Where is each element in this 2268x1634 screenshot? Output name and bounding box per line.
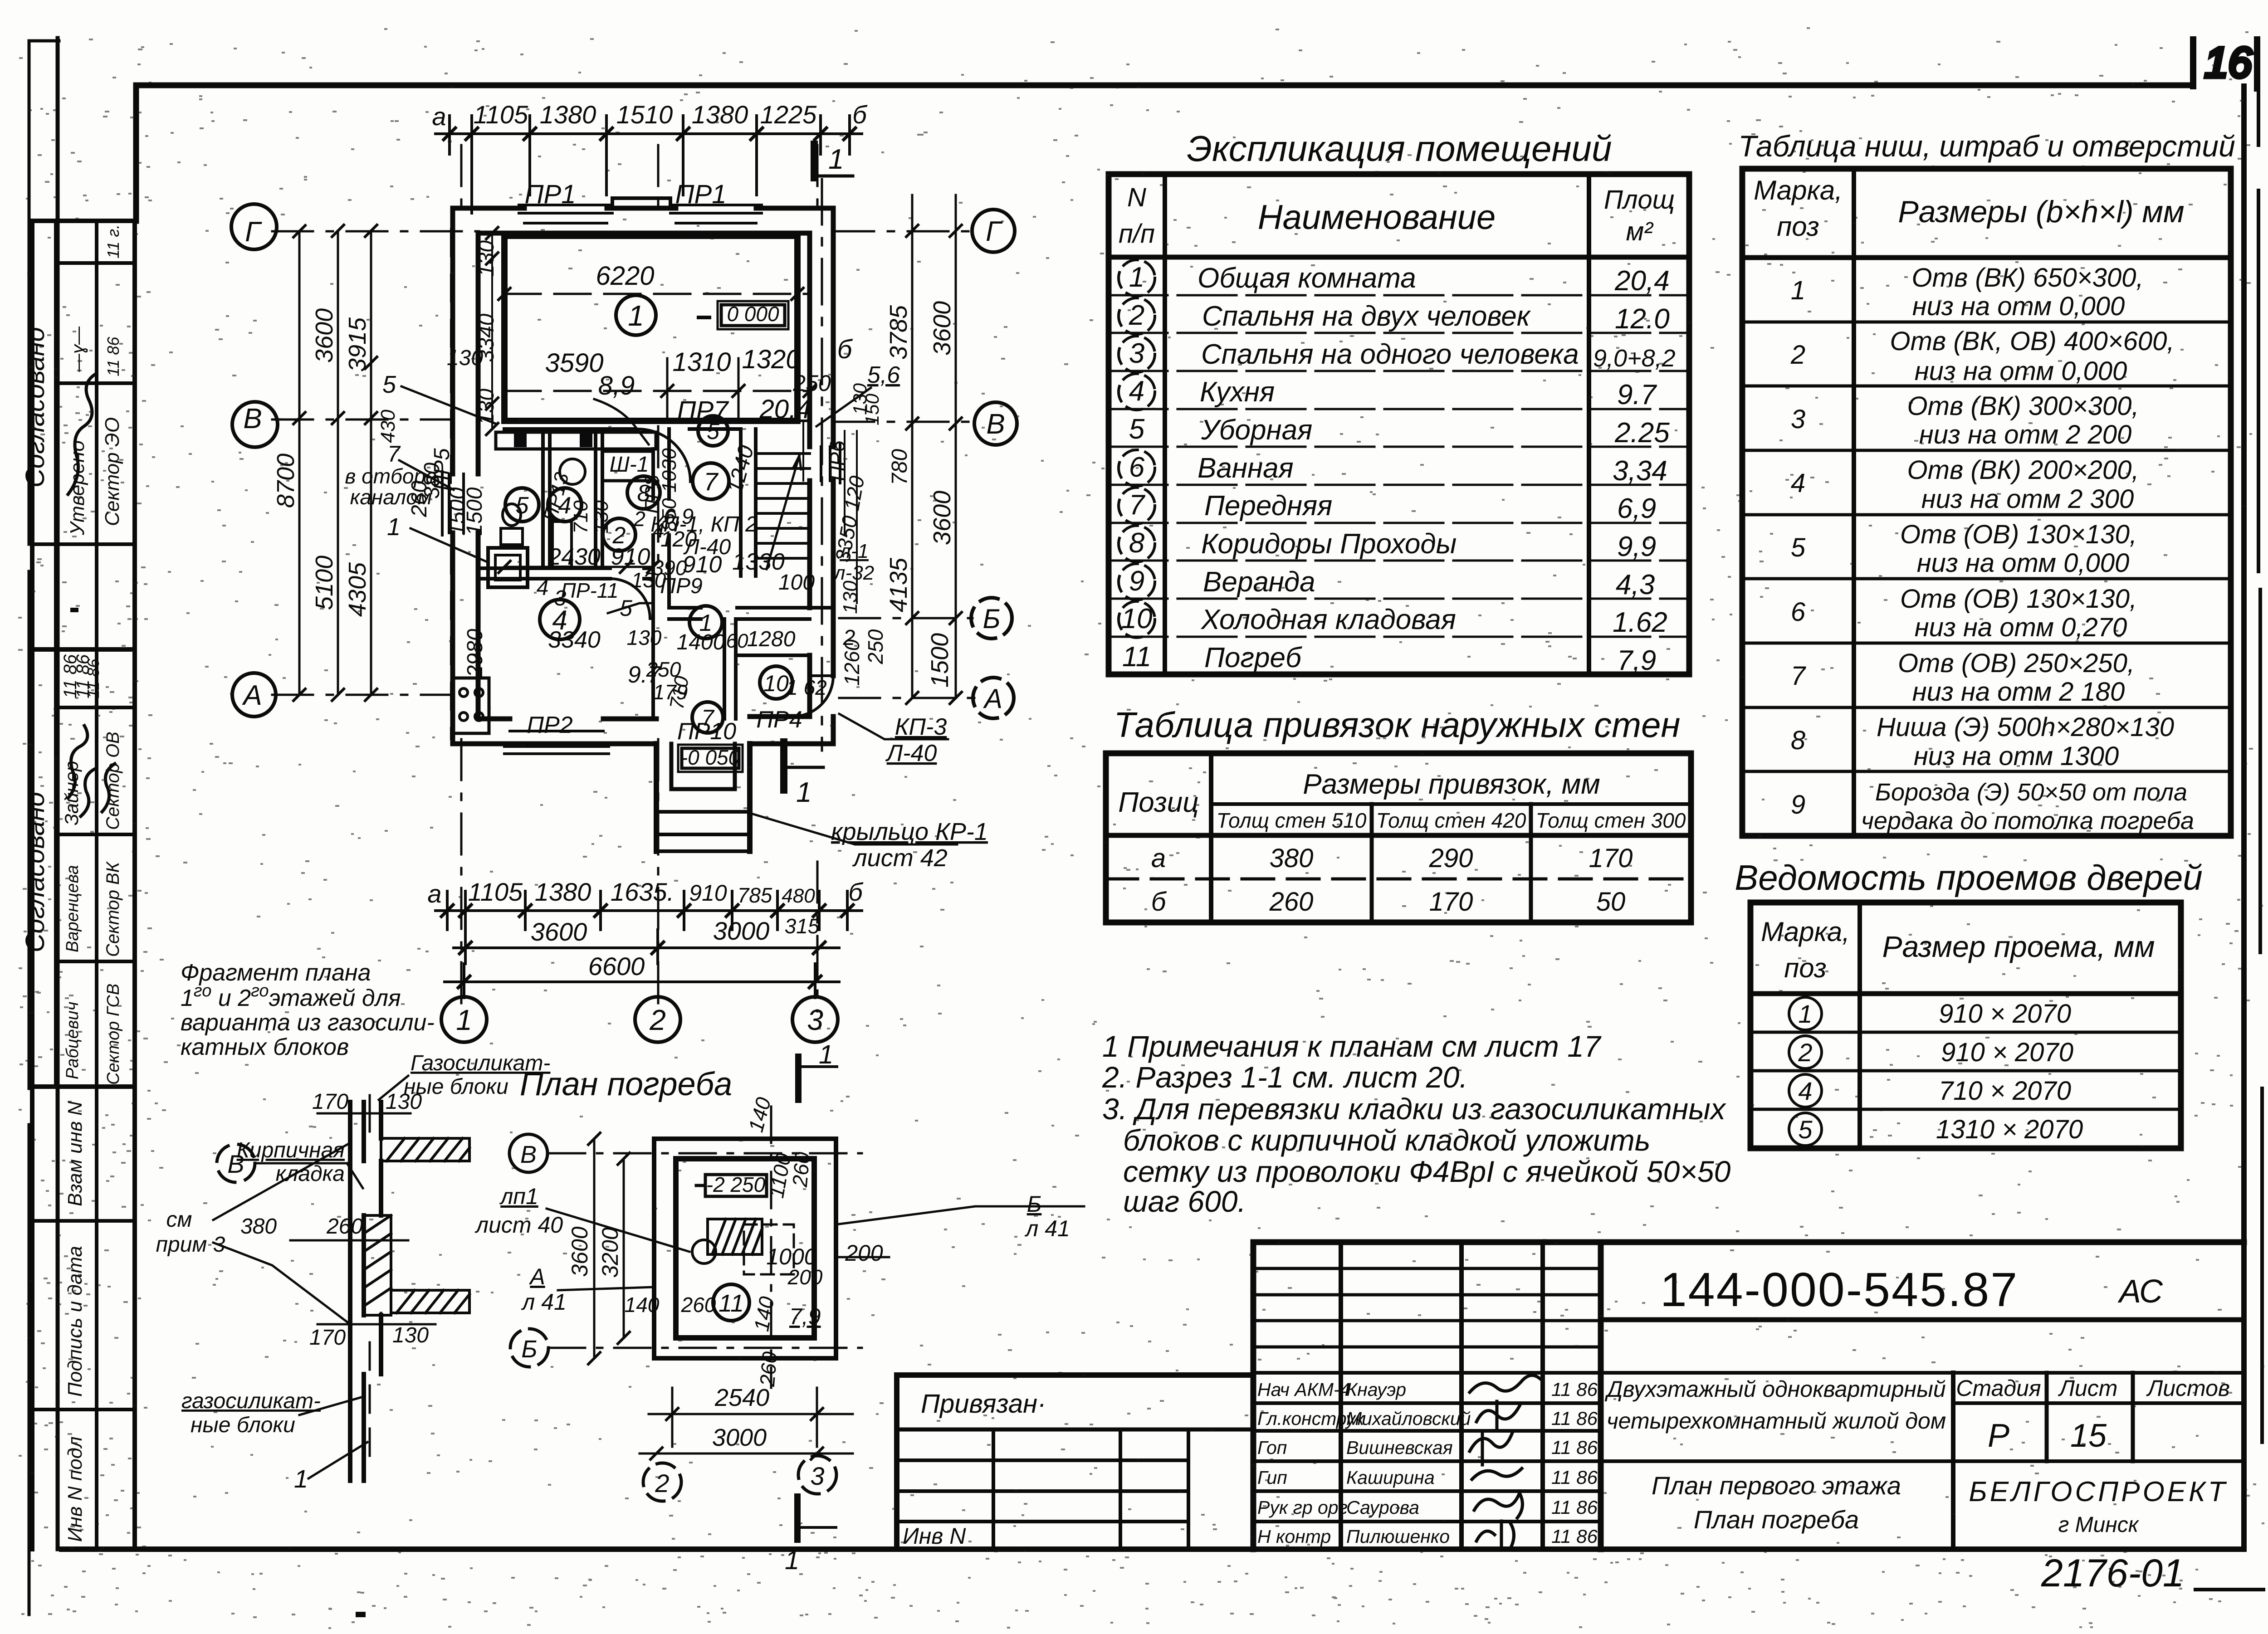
leader 5 mid (608, 603, 653, 613)
svg-text:шаг 600.: шаг 600. (1123, 1185, 1246, 1218)
svg-text:2: 2 (1790, 340, 1805, 370)
signature squiggles block2 (68, 726, 88, 798)
stray dot left (73, 608, 76, 612)
svg-text:низ на отм 2 300: низ на отм 2 300 (1921, 484, 2134, 514)
leader 7 left (399, 460, 454, 490)
svg-text:ПР4: ПР4 (756, 707, 802, 733)
svg-text:4: 4 (537, 576, 549, 600)
svg-text:л 41: л 41 (1024, 1216, 1070, 1241)
svg-text:9: 9 (1129, 566, 1144, 597)
svg-text:11 86: 11 86 (1551, 1526, 1598, 1547)
svg-text:1: 1 (456, 1004, 472, 1036)
svg-text:Двухэтажный одноквартирный: Двухэтажный одноквартирный (1604, 1376, 1945, 1402)
strip column divider 2 (95, 221, 98, 1549)
svg-text:Михайловский: Михайловский (1346, 1408, 1471, 1429)
svg-text:9,9: 9,9 (1617, 531, 1656, 562)
svg-text:260: 260 (1269, 887, 1314, 917)
level box -2 250 (705, 1175, 767, 1196)
svg-text:1: 1 (294, 1464, 308, 1493)
hall/storeroom wall (724, 619, 736, 719)
svg-text:Отв (ОВ) 130×130,: Отв (ОВ) 130×130, (1900, 520, 2137, 549)
svg-text:380: 380 (240, 1215, 277, 1239)
svg-text:1го и 2гоэтажей для: 1го и 2гоэтажей для (181, 981, 401, 1011)
svg-text:1400: 1400 (677, 630, 725, 654)
room1 thick outline (504, 236, 797, 421)
svg-text:11: 11 (1122, 641, 1151, 673)
svg-text:2: 2 (649, 1004, 666, 1036)
svg-text:Погреб: Погреб (1204, 642, 1302, 673)
anchors subcolumn lines (1372, 804, 1531, 922)
explication dashed number circles (1119, 260, 1155, 638)
axis 3 vertical (816, 145, 819, 1011)
svg-text:260: 260 (755, 1351, 782, 1388)
svg-text:1380: 1380 (540, 100, 596, 129)
svg-text:Вишневская: Вишневская (1346, 1437, 1453, 1458)
svg-text:130: 130 (627, 626, 662, 649)
svg-text:4,3: 4,3 (1616, 569, 1655, 600)
svg-text:1105: 1105 (474, 100, 528, 129)
svg-text:Борозда (Э) 50×50 от пола: Борозда (Э) 50×50 от пола (1875, 779, 2187, 806)
svg-text:8: 8 (1129, 527, 1145, 559)
svg-text:Привязан·: Привязан· (921, 1389, 1046, 1419)
svg-text:7,9: 7,9 (789, 1304, 821, 1329)
svg-text:а: а (1151, 844, 1166, 873)
svg-text:1635.: 1635. (611, 878, 674, 906)
svg-text:11 86: 11 86 (1551, 1467, 1598, 1488)
svg-text:9: 9 (1791, 790, 1805, 819)
tall grid left edge (1251, 1242, 1256, 1549)
fragment wall vertical lines (350, 1102, 381, 1481)
axis B horizontal right (839, 617, 973, 619)
svg-text:Нач АКМ-4: Нач АКМ-4 (1257, 1379, 1350, 1400)
svg-text:9.7: 9.7 (1617, 379, 1657, 410)
anchors col divider (1209, 753, 1213, 922)
svg-text:1500: 1500 (463, 487, 487, 536)
svg-text:2: 2 (655, 1469, 669, 1497)
svg-text:2176-01: 2176-01 (2041, 1551, 2185, 1595)
svg-text:варианта из газосили-: варианта из газосили- (181, 1010, 435, 1036)
svg-text:130: 130 (386, 1090, 422, 1114)
svg-text:8: 8 (1791, 726, 1805, 755)
top small dims rotated (625, 1095, 883, 1388)
svg-text:ПР1: ПР1 (675, 180, 727, 209)
left extension dashed (450, 229, 452, 739)
attach grid rows (897, 1460, 1188, 1522)
svg-text:170: 170 (312, 1090, 348, 1114)
doors rows lines (1750, 1032, 2181, 1109)
svg-text:лист 42: лист 42 (852, 844, 948, 872)
svg-text:Б: Б (1027, 1191, 1042, 1217)
block3 top (32, 1084, 135, 1089)
svg-text:Рук гр орг: Рук гр орг (1257, 1497, 1348, 1518)
fragment dim ticks top (318, 1095, 411, 1132)
svg-text:6: 6 (1791, 597, 1806, 627)
svg-text:1330: 1330 (732, 549, 785, 575)
wall under room1 (504, 421, 741, 429)
window PR1 left sill (519, 205, 612, 223)
B l41 right labels (1024, 1191, 1070, 1241)
room 11 circle (713, 1284, 749, 1321)
axis circle 3 bottom (792, 997, 838, 1042)
block1/2 divider (32, 647, 135, 652)
svg-text:Ведомость проемов дверей: Ведомость проемов дверей (1735, 858, 2203, 897)
block2 row lines (56, 707, 135, 961)
svg-text:3200: 3200 (597, 1227, 623, 1278)
svg-text:План погреба: План погреба (520, 1066, 732, 1102)
svg-text:низ на отм 0,270: низ на отм 0,270 (1915, 613, 2127, 642)
svg-text:1: 1 (1798, 1000, 1812, 1028)
svg-text:5: 5 (1791, 533, 1806, 562)
svg-text:Наименование: Наименование (1258, 198, 1496, 237)
svg-text:Ниша (Э) 500h×280×130: Ниша (Э) 500h×280×130 (1877, 712, 2174, 742)
svg-text:5: 5 (1798, 1115, 1813, 1144)
stove with burners (454, 678, 489, 733)
anchors data row line (1106, 878, 1691, 881)
svg-text:6,9: 6,9 (1617, 493, 1656, 524)
svg-text:а: а (427, 879, 441, 908)
svg-text:Таблица ниш, штраб и отверстий: Таблица ниш, штраб и отверстий (1738, 129, 2235, 163)
doors table outer box (1750, 902, 2181, 1148)
svg-text:2. Разрез 1-1 см. лист 20.: 2. Разрез 1-1 см. лист 20. (1102, 1060, 1468, 1094)
top wall inner face (478, 231, 810, 236)
svg-text:низ на отм 1300: низ на отм 1300 (1914, 741, 2119, 771)
svg-text:поз: поз (1777, 211, 1819, 242)
svg-text:Передняя: Передняя (1204, 490, 1332, 522)
svg-text:3000: 3000 (712, 1424, 767, 1451)
leader 5 left (401, 386, 497, 424)
svg-text:ПР-11: ПР-11 (561, 579, 618, 602)
hatched ledge 2 (391, 1290, 469, 1313)
svg-text:1500: 1500 (926, 633, 953, 688)
door arc porch (792, 676, 833, 717)
bath tub (552, 522, 572, 567)
hatched pier (364, 1215, 391, 1315)
brick label (237, 1138, 345, 1186)
axis V circle fragment (217, 1144, 255, 1182)
corridor left wall (653, 429, 669, 719)
lower gas-silicate label (181, 1389, 321, 1437)
svg-text:Б: Б (521, 1336, 537, 1363)
svg-text:Таблица привязок наружных сте: Таблица привязок наружных стен (1114, 705, 1681, 745)
door gap right bottom lines (810, 674, 833, 677)
anchors header row1 bottom (1211, 802, 1691, 806)
svg-text:а: а (432, 102, 446, 131)
svg-text:Отв (ВК, ОВ) 400×600,: Отв (ВК, ОВ) 400×600, (1890, 327, 2175, 356)
window PR6 sill right (821, 444, 840, 483)
svg-text:1225: 1225 (760, 100, 817, 129)
svg-text:см: см (166, 1208, 192, 1232)
bottom dims 170 130 (318, 1313, 435, 1338)
axis circle A left (232, 673, 276, 717)
svg-text:710: 710 (570, 500, 592, 534)
svg-text:Инв N: Инв N (903, 1523, 966, 1549)
top dim extension verticals (450, 116, 850, 213)
bottom frame line (62, 1546, 2244, 1552)
axis circle G left (231, 204, 277, 249)
svg-text:1260: 1260 (840, 639, 864, 686)
svg-text:низ на отм 0,000: низ на отм 0,000 (1917, 548, 2129, 578)
block1 mid line (56, 381, 135, 385)
fragment caption (181, 960, 435, 1060)
svg-text:3600: 3600 (929, 491, 956, 545)
svg-text:Коридоры Проходы: Коридоры Проходы (1201, 528, 1457, 560)
svg-text:8,9: 8,9 (598, 371, 635, 400)
section flag 1 top of cellar (795, 1057, 802, 1100)
svg-text:100: 100 (778, 571, 815, 595)
explication header bottom (1109, 255, 1689, 260)
svg-text:1310: 1310 (672, 347, 731, 377)
toilet (501, 528, 523, 545)
niches column line (1852, 169, 1856, 836)
svg-text:г Минск: г Минск (2058, 1513, 2140, 1537)
svg-text:3600: 3600 (531, 917, 587, 946)
svg-text:Стадия: Стадия (1956, 1375, 2041, 1401)
block3 dividers (32, 1221, 135, 1410)
svg-text:л-32: л-32 (833, 562, 874, 584)
svg-text:Взам инв N: Взам инв N (64, 1101, 86, 1206)
svg-text:315: 315 (785, 914, 820, 938)
wc/bath dividing wall (543, 429, 550, 568)
svg-text:Позиц: Позиц (1118, 787, 1198, 818)
frame left vertical upper (133, 85, 139, 221)
top dim line (435, 132, 862, 135)
svg-text:Лист: Лист (2058, 1375, 2118, 1401)
svg-text:3: 3 (807, 1004, 823, 1036)
svg-text:Согласовано: Согласовано (20, 792, 50, 952)
strip column divider 1 (54, 221, 58, 1087)
svg-text:Холодная кладовая: Холодная кладовая (1200, 604, 1456, 635)
porch level box (682, 748, 739, 768)
svg-text:200: 200 (787, 1265, 823, 1289)
svg-text:1 Примечания к планам см: 1 Примечания к планам см лист 17 (1102, 1029, 1602, 1063)
svg-text:План первого этажа: План первого этажа (1652, 1471, 1901, 1500)
svg-text:1: 1 (819, 1040, 833, 1069)
svg-text:7: 7 (387, 441, 401, 467)
svg-text:Инв N подл: Инв N подл (64, 1436, 86, 1542)
svg-text:1: 1 (796, 777, 811, 808)
svg-text:БЕЛГОСПРОЕКТ: БЕЛГОСПРОЕКТ (1969, 1476, 2228, 1507)
svg-text:б: б (852, 100, 868, 129)
svg-text:низ на отм 0,000: низ на отм 0,000 (1915, 356, 2127, 386)
svg-text:260: 260 (681, 1293, 716, 1317)
svg-text:газосиликат-: газосиликат- (181, 1389, 321, 1413)
svg-text:3,34: 3,34 (1613, 455, 1667, 487)
svg-text:б: б (837, 335, 853, 364)
svg-text:1105: 1105 (468, 878, 523, 906)
door arc kitchen (610, 579, 650, 619)
niches table outer box (1742, 169, 2231, 836)
svg-text:1.62: 1.62 (1613, 607, 1667, 638)
page number 16 box (2190, 39, 2196, 86)
svg-text:N: N (1127, 183, 1146, 212)
svg-text:11 г.: 11 г. (104, 224, 122, 259)
svg-text:785: 785 (738, 883, 772, 907)
svg-text:250: 250 (792, 371, 831, 396)
svg-text:130: 130 (447, 346, 483, 370)
svg-text:Уборная: Уборная (1201, 415, 1312, 446)
svg-text:2: 2 (1798, 1038, 1812, 1067)
explication row lines (dashed handdrawn) (1109, 295, 1689, 637)
anchors header row2 bottom (1106, 833, 1691, 838)
svg-text:КП-3: КП-3 (895, 714, 947, 740)
svg-text:144-000-545.87: 144-000-545.87 (1660, 1263, 2019, 1317)
svg-text:поз: поз (1784, 953, 1827, 983)
svg-text:Толщ стен 510: Толщ стен 510 (1217, 809, 1367, 832)
svg-text:б: б (848, 878, 864, 906)
svg-text:140: 140 (625, 1293, 660, 1317)
svg-text:910: 910 (689, 880, 727, 906)
sheet margin dashed left line (28, 41, 31, 1614)
anchors table outer box (1106, 753, 1691, 922)
svg-text:План погреба: План погреба (1694, 1505, 1859, 1534)
svg-text:1510: 1510 (616, 100, 673, 129)
svg-text:1280: 1280 (747, 627, 796, 651)
window PR5 sill left (442, 472, 464, 535)
axis circle 1 bottom (441, 997, 487, 1042)
names column texts (1257, 1379, 1598, 1547)
svg-text:4135: 4135 (885, 557, 912, 612)
right interior dim chain (802, 421, 804, 481)
sheet inner left margin line (56, 38, 60, 1549)
svg-text:11 86: 11 86 (1551, 1497, 1598, 1518)
left interior dim chain (491, 233, 493, 429)
svg-text:290: 290 (1429, 844, 1473, 873)
svg-text:Отв (ВК) 200×200,: Отв (ВК) 200×200, (1907, 455, 2139, 485)
svg-text:11 86: 11 86 (104, 337, 122, 376)
svg-text:Размеры (b×h×l) мм: Размеры (b×h×l) мм (1898, 195, 2184, 229)
svg-text:780: 780 (888, 449, 912, 485)
svg-text:3600: 3600 (929, 301, 956, 356)
svg-text:Площ: Площ (1604, 185, 1675, 215)
svg-text:1: 1 (785, 1546, 799, 1575)
svg-text:л 41: л 41 (521, 1289, 567, 1315)
svg-text:710 × 2070: 710 × 2070 (1939, 1076, 2071, 1106)
bottom dims (640, 1388, 853, 1459)
svg-text:5: 5 (1129, 414, 1145, 445)
svg-text:130: 130 (392, 1323, 429, 1347)
svg-text:3600: 3600 (567, 1226, 592, 1277)
bottom wall outer (453, 741, 833, 746)
svg-text:прим 3: прим 3 (156, 1233, 225, 1257)
svg-text:170: 170 (309, 1326, 346, 1350)
svg-text:2.25: 2.25 (1614, 417, 1670, 449)
wall above kitchen (478, 568, 653, 579)
axis V circle cellar (509, 1134, 547, 1172)
window PR1 right sill (670, 205, 762, 223)
doors col divider (1857, 902, 1862, 1148)
svg-text:четырехкомнатный жилой дом: четырехкомнатный жилой дом (1607, 1408, 1946, 1434)
svg-text:-0 050: -0 050 (681, 746, 740, 769)
svg-text:Каширина: Каширина (1346, 1467, 1435, 1488)
block1 top small row line (56, 261, 135, 265)
svg-text:—ɣ—: —ɣ— (68, 326, 88, 372)
storeroom box (736, 654, 810, 657)
svg-text:Веранда: Веранда (1203, 566, 1315, 598)
sm prim 3 label (156, 1208, 225, 1257)
svg-text:10: 10 (763, 671, 789, 696)
leader 1 bottom (369, 1342, 371, 1465)
svg-text:2540: 2540 (714, 1384, 769, 1411)
svg-text:АС: АС (2117, 1273, 2163, 1310)
svg-text:Гоп: Гоп (1257, 1437, 1287, 1458)
flue shaft square kitchen (488, 548, 528, 587)
axis circle V right (974, 402, 1017, 445)
5,6 leader (816, 388, 871, 426)
svg-text:Толщ стен 300: Толщ стен 300 (1536, 809, 1686, 832)
stairs left wall (741, 429, 756, 576)
svg-text:1310 × 2070: 1310 × 2070 (1936, 1115, 2083, 1144)
svg-text:Отв (ОВ) 130×130,: Отв (ОВ) 130×130, (1900, 584, 2137, 614)
tall grid right edge / big box left (1598, 1242, 1604, 1549)
svg-text:лист 40: лист 40 (474, 1212, 563, 1238)
niches row lines (1742, 322, 2231, 771)
axis B circle cellar (510, 1329, 548, 1367)
svg-text:1: 1 (1129, 262, 1144, 293)
stage/sheet columns (2047, 1373, 2133, 1461)
svg-text:Марка,: Марка, (1754, 175, 1843, 205)
svg-text:11 86: 11 86 (1551, 1408, 1598, 1429)
right wall inner (807, 233, 812, 717)
svg-text:8700: 8700 (272, 454, 299, 508)
hall lower walls (669, 608, 833, 619)
svg-text:6220: 6220 (596, 261, 654, 291)
axis A horizontal (272, 695, 974, 698)
svg-text:Общая комната: Общая комната (1198, 263, 1416, 294)
svg-text:5: 5 (516, 493, 529, 519)
project number box bottom (1601, 1317, 2244, 1322)
svg-text:Отв (ВК) 300×300,: Отв (ВК) 300×300, (1907, 391, 2139, 421)
svg-text:низ на отм 2 200: низ на отм 2 200 (1919, 420, 2131, 449)
explication rows text (1121, 262, 1676, 676)
svg-text:л-1: л-1 (838, 540, 869, 562)
svg-text:чердака до потолка погреба: чердака до потолка погреба (1861, 807, 2194, 834)
svg-text:ПР2: ПР2 (527, 712, 572, 738)
svg-text:Марка,: Марка, (1761, 917, 1850, 947)
svg-text:Листов: Листов (2146, 1375, 2230, 1401)
svg-text:Г: Г (245, 216, 262, 248)
svg-text:В: В (520, 1141, 537, 1168)
svg-text:Согласовано: Согласовано (20, 327, 50, 488)
svg-text:В: В (986, 409, 1005, 440)
svg-text:12.0: 12.0 (1615, 303, 1670, 335)
svg-text:1 62: 1 62 (786, 676, 827, 699)
svg-text:2430: 2430 (547, 544, 601, 570)
svg-text:1: 1 (828, 144, 844, 175)
top dim ticks (444, 128, 855, 140)
svg-text:низ на отм 2 180: низ на отм 2 180 (1912, 677, 2125, 707)
svg-text:11: 11 (719, 1290, 744, 1317)
left wall outer (450, 208, 455, 744)
bottom axis circles dashed (643, 1463, 681, 1501)
svg-text:260: 260 (326, 1215, 363, 1239)
axis circle A right dashed (973, 678, 1014, 718)
svg-text:3: 3 (1791, 405, 1805, 434)
svg-text:Отв (ОВ) 250×250,: Отв (ОВ) 250×250, (1898, 649, 2135, 678)
lp1 list40 labels (474, 1184, 563, 1238)
svg-text:20,4: 20,4 (759, 395, 811, 424)
svg-text:КП-1, КП 2: КП-1, КП 2 (650, 512, 758, 537)
svg-text:1: 1 (628, 299, 644, 332)
svg-text:7,9: 7,9 (1617, 645, 1656, 676)
380 260 dims (290, 1239, 408, 1242)
right wall outer (831, 208, 836, 744)
svg-text:катных блоков: катных блоков (181, 1034, 349, 1060)
section flag 1 bottom of cellar (794, 1497, 801, 1540)
left approval strip outer box (32, 221, 135, 1549)
krilco leader (753, 814, 957, 844)
svg-text:2: 2 (633, 507, 645, 531)
svg-text:4: 4 (1129, 376, 1144, 407)
